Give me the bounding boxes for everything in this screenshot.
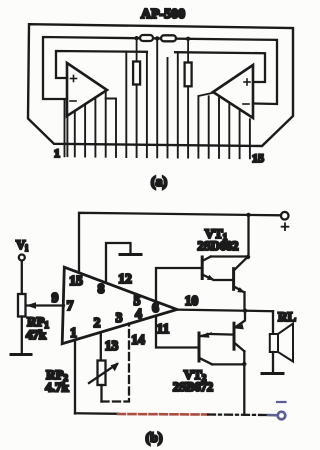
- wire pin11 to VT2 base: [156, 316, 197, 348]
- wire A1 lower vertex drop: [66, 116, 68, 156]
- pin wire 11: [167, 58, 169, 157]
- svg-text:11: 11: [157, 321, 170, 336]
- wire VT2 to bottom rail: [243, 364, 245, 415]
- pin wire 4: [94, 98, 96, 157]
- svg-text:1: 1: [54, 146, 60, 160]
- node dot j3: [186, 37, 190, 41]
- op-amp A1: [67, 63, 107, 116]
- transistor VT1b: [234, 258, 247, 310]
- svg-text:8: 8: [98, 281, 105, 296]
- wire RP2 bottom: [100, 385, 102, 402]
- svg-text:12: 12: [118, 271, 132, 286]
- pin wire 8: [136, 85, 138, 158]
- node dot VT1 collector: [246, 255, 250, 259]
- node dot j2: [155, 36, 159, 40]
- svg-text:(b): (b): [145, 431, 162, 446]
- IC package outline AP-500: [28, 24, 293, 146]
- wire: VT1 collector rail: [247, 215, 249, 257]
- svg-text:7: 7: [67, 298, 74, 313]
- wire output rail: [177, 310, 273, 312]
- wire RP1 to ground: [21, 317, 23, 354]
- wire: top loop L3 left: [56, 51, 147, 78]
- pin wire 2: [74, 111, 76, 156]
- svg-text:3: 3: [116, 310, 123, 325]
- pin wire 16: [218, 97, 220, 158]
- svg-text:9: 9: [52, 290, 59, 305]
- svg-text:15: 15: [69, 273, 83, 288]
- transistor VT2b: [234, 311, 245, 364]
- pin wire 12: [177, 52, 179, 157]
- node dot j1: [134, 36, 138, 40]
- resistor vertical R-v2: [185, 39, 192, 87]
- svg-text:4: 4: [135, 306, 142, 321]
- wire: riser to +rail: [79, 213, 281, 273]
- svg-text:47k: 47k: [26, 327, 47, 342]
- wire to speaker: [272, 311, 274, 334]
- arrow RP2: [89, 363, 119, 383]
- node dot output: [243, 309, 247, 313]
- svg-text:2SD682: 2SD682: [198, 239, 239, 253]
- pin wire 5: [105, 91, 107, 157]
- pin wire 17: [228, 103, 230, 158]
- svg-text:AP-500: AP-500: [141, 7, 185, 22]
- transistor VT2a: [199, 332, 243, 364]
- pin wire 1: [64, 99, 66, 156]
- resistor horizontal R-h2: [161, 35, 176, 41]
- wiper arrow RP1: [27, 304, 64, 306]
- op-amp U1 triangle: [62, 267, 177, 344]
- svg-text:13: 13: [105, 338, 119, 353]
- wire Vi to RP1: [21, 261, 23, 294]
- svg-text:(a): (a): [151, 175, 168, 190]
- svg-text:10: 10: [185, 293, 199, 308]
- bottom rail blue end + terminal: [268, 402, 286, 419]
- wire: top loop L3 right: [175, 52, 265, 82]
- potentiometer RP1: [18, 294, 26, 317]
- pin labels U1: [52, 271, 199, 353]
- pin wire 19: [249, 119, 251, 158]
- pin wires group (a): [65, 38, 250, 158]
- resistor horizontal R-h1: [140, 35, 153, 41]
- resistor vertical R-v1: [133, 38, 140, 84]
- svg-text:2SB672: 2SB672: [173, 380, 213, 394]
- pin wire 13: [187, 86, 189, 157]
- bottom rail (black part): [75, 412, 118, 415]
- pin wire 6: [106, 99, 116, 157]
- dashed wire pin14 box: [102, 324, 130, 402]
- node dot on +rail: [246, 213, 250, 217]
- pin wire 10: [156, 38, 158, 157]
- ground for RP1: [11, 353, 31, 356]
- speaker RL: [262, 324, 293, 374]
- pin wire 9: [146, 52, 148, 157]
- node dot VT2: [242, 362, 246, 366]
- wire pin6 to VT1 base: [156, 268, 201, 301]
- wire: top loop L2: [43, 37, 277, 104]
- svg-text:1: 1: [70, 325, 77, 340]
- pin wire 18: [239, 110, 241, 158]
- potentiometer RP2: [98, 361, 106, 386]
- pin wire 14: [198, 93, 212, 158]
- svg-text:15: 15: [252, 151, 264, 165]
- pin wire 7: [125, 52, 127, 157]
- svg-text:RL: RL: [278, 309, 296, 324]
- svg-text:4.7k: 4.7k: [45, 380, 69, 395]
- transistor VT1a: [202, 257, 248, 281]
- terminal +: [281, 212, 289, 220]
- ground for pin 8: [120, 253, 141, 256]
- bottom rail dash-dot: [208, 413, 268, 416]
- svg-text:14: 14: [131, 332, 145, 347]
- bottom rail red dashes: [118, 413, 208, 416]
- pin wire 15: [208, 96, 210, 158]
- pin wire 3: [84, 104, 86, 156]
- input Vi terminal: [19, 255, 25, 261]
- wire pin13 to RP2: [100, 332, 102, 360]
- svg-text:2: 2: [94, 315, 101, 330]
- svg-text:Vi: Vi: [16, 237, 28, 253]
- wire: pin8 to ground: [106, 243, 131, 283]
- op-amp A2: [213, 65, 253, 118]
- wire pin1 down to bottom rail: [74, 340, 76, 414]
